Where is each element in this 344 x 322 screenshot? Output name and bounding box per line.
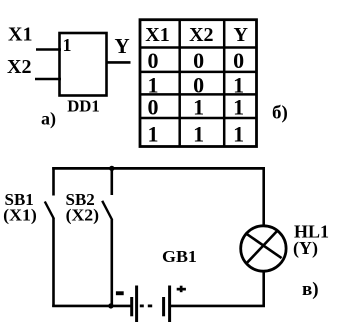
battery GB1 plus sign [177,288,186,291]
wire input X1 to DD1 [36,48,61,51]
wire SB2 upper stub [111,168,114,195]
truth table column divider 2 [223,20,226,147]
wire output Y from DD1 [107,61,131,64]
svg-text:б): б) [272,102,288,123]
svg-text:1: 1 [193,94,204,119]
truth table row divider 2 [140,93,257,96]
lamp HL1 circle [241,226,286,271]
svg-text:Y: Y [115,34,130,58]
truth table header divider [140,46,257,49]
svg-text:GB1: GB1 [162,247,197,266]
truth table frame [140,20,257,147]
wire input X2 to DD1 [35,78,61,81]
battery GB1 cell1 short plate [130,297,133,316]
svg-text:0: 0 [148,48,159,73]
wire right bus upper [262,167,265,227]
battery GB1 minus sign [116,291,124,295]
switch SB2 lever [102,201,112,220]
svg-text:(Y): (Y) [293,238,318,259]
battery GB1 dashed link dash 1 [140,304,144,307]
svg-text:Y: Y [233,24,248,46]
svg-text:X2: X2 [7,56,31,78]
node junction bottom of SB2 [108,303,113,308]
wire SB1 upper stub [52,167,55,195]
svg-text:0: 0 [148,94,159,119]
op-gate DD1 (OR gate body) [60,33,107,96]
svg-text:X2: X2 [189,24,213,46]
svg-text:1: 1 [193,122,204,147]
svg-text:X1: X1 [145,24,169,46]
truth table row 3 values 0 1 1 [148,94,245,119]
battery GB1 cell1 long plate [135,286,138,322]
battery GB1 cell2 short plate [162,297,165,316]
wire top bus [52,167,265,170]
svg-text:1: 1 [233,94,244,119]
svg-text:1: 1 [63,35,72,55]
truth table row divider 1 [140,71,257,74]
battery GB1 dashed link dash 2 [148,304,152,307]
svg-text:DD1: DD1 [67,97,100,116]
svg-text:(X2): (X2) [66,205,100,224]
truth table column divider 1 [178,20,181,147]
wire bottom bus left [52,305,132,308]
svg-text:а): а) [41,109,56,130]
wire SB2 lower segment [111,220,114,308]
svg-text:1: 1 [148,122,159,147]
svg-text:0: 0 [193,48,204,73]
truth table row divider 3 [140,117,257,120]
svg-text:1: 1 [233,122,244,147]
lamp HL1 cross line 2 [247,230,278,263]
truth table row 1 values 0 0 0 [148,48,245,73]
wire right bus lower [262,270,265,307]
svg-text:0: 0 [233,48,244,73]
wire bottom bus right [170,305,265,308]
svg-text:X1: X1 [8,24,32,46]
switch SB1 lever [45,202,54,219]
lamp HL1 cross line 1 [245,233,281,258]
truth table row 2 values 1 0 1 [148,73,245,98]
svg-text:в): в) [302,279,319,300]
svg-text:(X1): (X1) [3,205,37,224]
node junction top of SB2 [109,166,114,171]
battery GB1 cell2 long plate [168,286,171,322]
truth table row 4 values 1 1 1 [148,122,245,147]
wire SB1 lower segment [52,218,55,307]
